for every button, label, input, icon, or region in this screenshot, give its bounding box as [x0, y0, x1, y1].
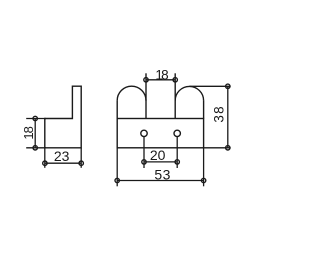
dim 53: right extension line [203, 148, 205, 187]
svg-text:53: 53 [154, 167, 171, 183]
dim 18 front: right terminator [173, 78, 177, 82]
dim 20: right terminator [175, 160, 179, 164]
dim 23: right extension line [80, 148, 82, 168]
front view right prong arch [175, 86, 203, 100]
dim 18 side: bottom terminator [33, 146, 37, 150]
svg-text:23: 23 [54, 148, 70, 164]
dim 18 side: dimension line [34, 119, 36, 148]
dim 23: left extension line [44, 148, 46, 168]
front view left screw hole [141, 130, 147, 136]
dim 53: left terminator [115, 178, 119, 182]
dim 23: left terminator [43, 161, 47, 165]
front view right prong right edge [203, 101, 205, 119]
dim 23: dimension line [45, 162, 81, 164]
svg-text:38: 38 [212, 105, 227, 122]
dim 20: left terminator [142, 160, 146, 164]
svg-text:20: 20 [150, 147, 166, 163]
front view right prong left edge + dim 18 front right extension [174, 73, 176, 118]
dim 53: right terminator [201, 178, 205, 182]
dim 20: dimension line [144, 161, 177, 163]
dim 18 side: bottom extension line [26, 147, 46, 149]
dim 23: right terminator [79, 161, 83, 165]
dim 18 front: dimension line [146, 79, 175, 81]
svg-text:18: 18 [21, 126, 36, 139]
front view left prong right edge + dim 18 front left extension [145, 73, 147, 118]
dim 18 side: top terminator [33, 116, 37, 120]
dim 53: left extension line [116, 148, 118, 187]
front view right screw hole [174, 130, 180, 136]
front view plate [117, 119, 203, 148]
dim 20: left extension line from hole [143, 137, 145, 168]
dim 38: bottom extension line from plate bottom [204, 147, 231, 149]
front view left prong left edge [116, 101, 118, 119]
dim 18 side: top extension line [26, 118, 46, 120]
dim 38: top terminator [226, 84, 230, 88]
dim 38: top extension line from arch top [189, 85, 230, 87]
side view outline [45, 86, 81, 148]
dim 20: right extension line from hole [176, 137, 178, 168]
dim 18 front: left terminator [144, 78, 148, 82]
front view left prong arch [117, 86, 146, 100]
svg-text:18: 18 [155, 67, 168, 82]
dim 38: dimension line [227, 86, 229, 148]
dim 53: dimension line [117, 180, 203, 182]
dim 38: bottom terminator [226, 146, 230, 150]
